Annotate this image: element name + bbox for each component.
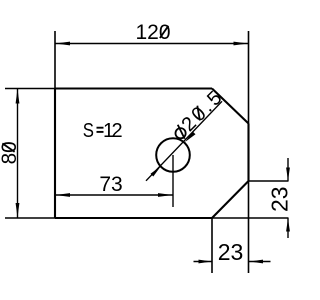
hole dimension text d20.5 (rotated 45) [169, 85, 228, 144]
svg-text:S: S [83, 118, 94, 141]
plate right edge [247, 124, 249, 182]
diameter symbol circle [173, 126, 187, 140]
dimension 23 right: upper dim line segment [287, 158, 289, 181]
dimension 23 bottom: right arrow (pointing left) [250, 260, 263, 264]
dimension 73: extension line from circle centre [172, 155, 174, 207]
leader lower arrow (pointing up-right at circle edge) [151, 166, 162, 177]
dimension 23 right: lower dim line segment [287, 218, 289, 238]
plate bottom edge [55, 217, 212, 219]
svg-text:120: 120 [135, 21, 170, 44]
dimension 23 bottom: left arrow (pointing right) [199, 260, 212, 264]
leader line of hole diameter (45 deg through centre) [146, 101, 222, 181]
svg-text:12: 12 [103, 120, 123, 142]
dimension 73: dim line [55, 194, 173, 196]
plate bottom-right notch diagonal [212, 181, 249, 218]
dimension 80: dim line [17, 89, 19, 219]
dimension 80: bottom arrow [16, 203, 20, 218]
dimension 23 bottom: extension line below notch corner [211, 218, 213, 273]
extension line left of bottom edge (for 80 dim) [5, 217, 55, 219]
plate top edge [55, 87, 212, 89]
extension line above right edge (for 120 dim) [248, 31, 250, 124]
dimension 80: top arrow [16, 89, 20, 104]
diameter symbol slash [174, 125, 188, 139]
dimension 120: left arrow [55, 42, 70, 46]
dimension 120: right arrow [234, 42, 249, 46]
dimension 80: slash of zero [2, 143, 14, 152]
svg-text:73: 73 [99, 173, 122, 196]
extension line right of bottom edge (for 23 dim) [212, 217, 289, 219]
dimension 120: slash of zero [160, 26, 169, 38]
dimension 23 right: lower arrow (pointing up) [286, 218, 290, 231]
svg-text:23: 23 [267, 186, 293, 212]
leader upper arrow (pointing down-left at circle edge) [185, 132, 196, 143]
dimension 73: left arrow [55, 193, 70, 197]
extension line left of top edge (for 80 dim) [5, 88, 55, 90]
thickness note: equals sign [97, 127, 104, 129]
slash of zero in 20.5 [191, 106, 206, 121]
plate top-right chamfer [212, 89, 249, 124]
dimension 73: right arrow [158, 193, 173, 197]
extension line above left edge (for 120 dim) [54, 31, 56, 89]
dimension 23 bottom: right tail line [249, 261, 271, 263]
extension line below right edge (for 23 dims) [248, 181, 250, 273]
dimension 23 right: extension line at notch top [249, 180, 289, 182]
dimension 23 bottom: left tail line [194, 261, 213, 263]
svg-text:23: 23 [218, 239, 244, 265]
dimension 23 right: upper arrow (pointing down) [286, 168, 290, 181]
dimension 120: dim line [55, 43, 249, 45]
hole circle d20.5 [156, 138, 190, 172]
plate left edge [54, 89, 56, 219]
